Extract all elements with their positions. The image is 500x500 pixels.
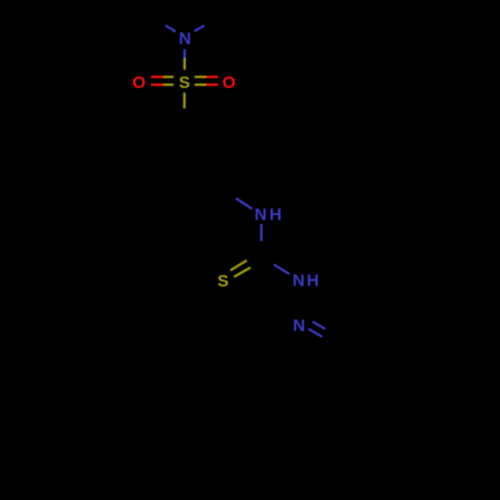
wire NH-C(thiourea) blue half — [260, 224, 262, 241]
wire C=S upper yellow half — [230, 260, 246, 270]
svg-text:N: N — [293, 271, 305, 290]
svg-text:S: S — [217, 271, 228, 290]
svg-text:H: H — [307, 271, 319, 290]
svg-text:N: N — [293, 316, 305, 335]
wire S=O right lower red — [206, 83, 218, 85]
wire N=C lower blue half — [308, 329, 322, 337]
wire S=O right lower yellow — [195, 83, 207, 85]
svg-text:O: O — [222, 73, 235, 92]
wire S=O left lower red — [151, 83, 163, 85]
wire N-CH3 right (blue half) — [194, 26, 204, 32]
wire C=S lower yellow half — [234, 268, 250, 277]
wire C-NH2nd blue half — [274, 265, 290, 275]
wire N=C upper blue half — [312, 322, 325, 330]
wire S=O left lower yellow — [163, 83, 173, 85]
wire S-C(aryl) yellow half — [183, 93, 185, 109]
wire S=O right upper yellow — [195, 76, 207, 78]
wire N-S upper half (blue) — [183, 49, 185, 58]
wire C(aryl)-NH blue half — [236, 198, 252, 209]
svg-text:N: N — [255, 205, 267, 224]
wire S=O right upper red — [206, 76, 218, 78]
svg-text:S: S — [179, 73, 190, 92]
wire N-CH3 left (blue half) — [165, 25, 175, 31]
wire N-S lower half (yellow) — [183, 58, 185, 70]
wire S=O left upper yellow — [163, 76, 173, 78]
wire S=O left upper red — [151, 76, 163, 78]
svg-text:N: N — [179, 29, 191, 48]
svg-text:O: O — [132, 73, 145, 92]
svg-text:H: H — [269, 205, 281, 224]
